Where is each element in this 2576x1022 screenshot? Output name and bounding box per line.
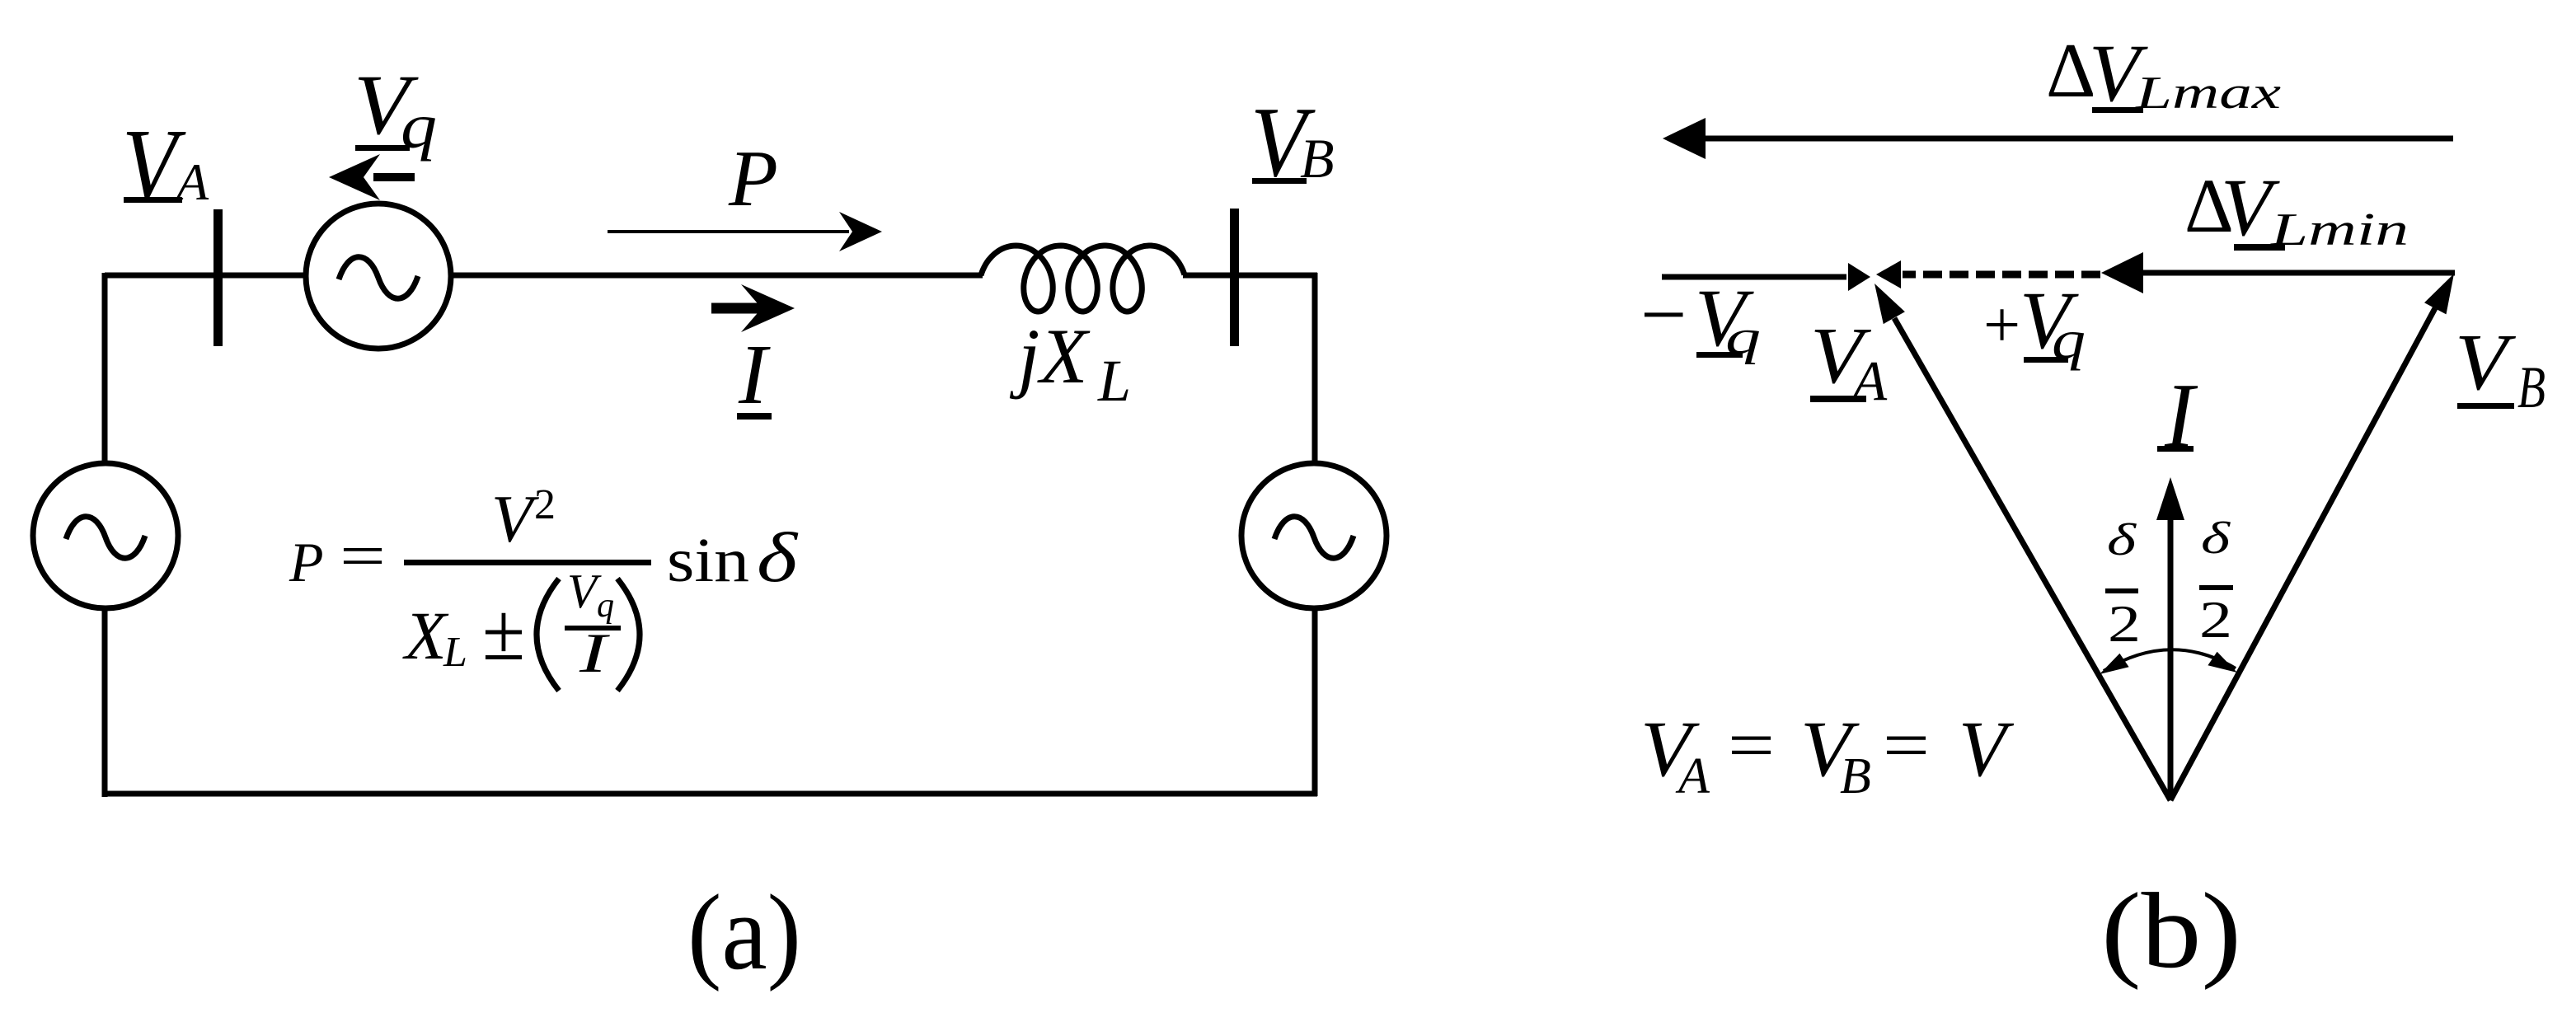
angle arc delta (2104, 649, 2236, 671)
svg-text:(b): (b) (2101, 871, 2241, 991)
svg-text:P: P (289, 531, 324, 593)
vector VB (2170, 308, 2435, 800)
vector +Vq dashed arrow (1903, 271, 2100, 279)
wire left lower vertical (102, 607, 108, 797)
svg-text:sin: sin (667, 526, 749, 595)
AC source G1 (left) (33, 463, 178, 608)
busbar VB (1230, 209, 1239, 346)
series source Vq circle (306, 204, 451, 349)
svg-text:−: − (1640, 269, 1687, 360)
wire right vertical lower (1312, 607, 1318, 796)
svg-text:2: 2 (2199, 590, 2232, 649)
svg-text:jX: jX (1009, 312, 1091, 400)
svg-text:±: ± (482, 586, 525, 677)
svg-text:δ: δ (2107, 514, 2137, 565)
svg-text:I: I (579, 621, 611, 684)
wire from VB busbar to right corner (1234, 273, 1317, 279)
svg-text:I: I (738, 327, 771, 422)
busbar VA (213, 209, 223, 346)
svg-text:Lmin: Lmin (2270, 204, 2409, 255)
svg-text:2: 2 (534, 481, 556, 528)
svg-text:X: X (402, 598, 449, 673)
wire bottom (102, 791, 1317, 797)
wire top-left from corner to Vq source (105, 273, 306, 279)
svg-text:L: L (1097, 348, 1131, 414)
inductor jXL coil (981, 246, 1185, 312)
svg-text:δ: δ (2201, 513, 2231, 563)
svg-text:P: P (728, 134, 778, 223)
svg-text:V: V (1959, 705, 2014, 793)
svg-text:A: A (1849, 349, 1888, 412)
svg-text:I: I (2164, 365, 2198, 467)
svg-text:A: A (1675, 748, 1710, 804)
vector I (b) (2168, 518, 2174, 800)
svg-text:B: B (1840, 748, 1871, 804)
vector -Vq arrow (1662, 274, 1846, 280)
svg-text:V: V (2455, 318, 2517, 407)
svg-text:=: = (340, 522, 386, 591)
wire right vertical upper (1312, 273, 1318, 465)
svg-text:B: B (2517, 354, 2546, 420)
wire left vertical (102, 273, 108, 463)
svg-text:2: 2 (2108, 594, 2141, 653)
vector dVLmax arrow (1700, 136, 2453, 142)
svg-text:=: = (1883, 706, 1930, 785)
arrow I (711, 303, 765, 314)
wire from Vq source to inductor (449, 273, 983, 279)
vector dVLmin arrow (2137, 270, 2455, 276)
svg-text:L: L (443, 629, 467, 676)
arrow P (608, 230, 849, 233)
svg-text:(a): (a) (687, 873, 801, 992)
svg-text:δ: δ (757, 518, 799, 597)
svg-text:=: = (1728, 706, 1775, 785)
svg-text:q: q (597, 587, 614, 625)
svg-text:+: + (1983, 289, 2020, 362)
svg-text:Lmax: Lmax (2135, 68, 2282, 119)
svg-text:V: V (491, 481, 539, 556)
vector VA (1894, 318, 2170, 800)
arrow Vq (points left above series source) (373, 173, 415, 181)
AC source G2 (right) (1241, 463, 1387, 608)
wire from inductor to VB busbar (1183, 273, 1234, 279)
